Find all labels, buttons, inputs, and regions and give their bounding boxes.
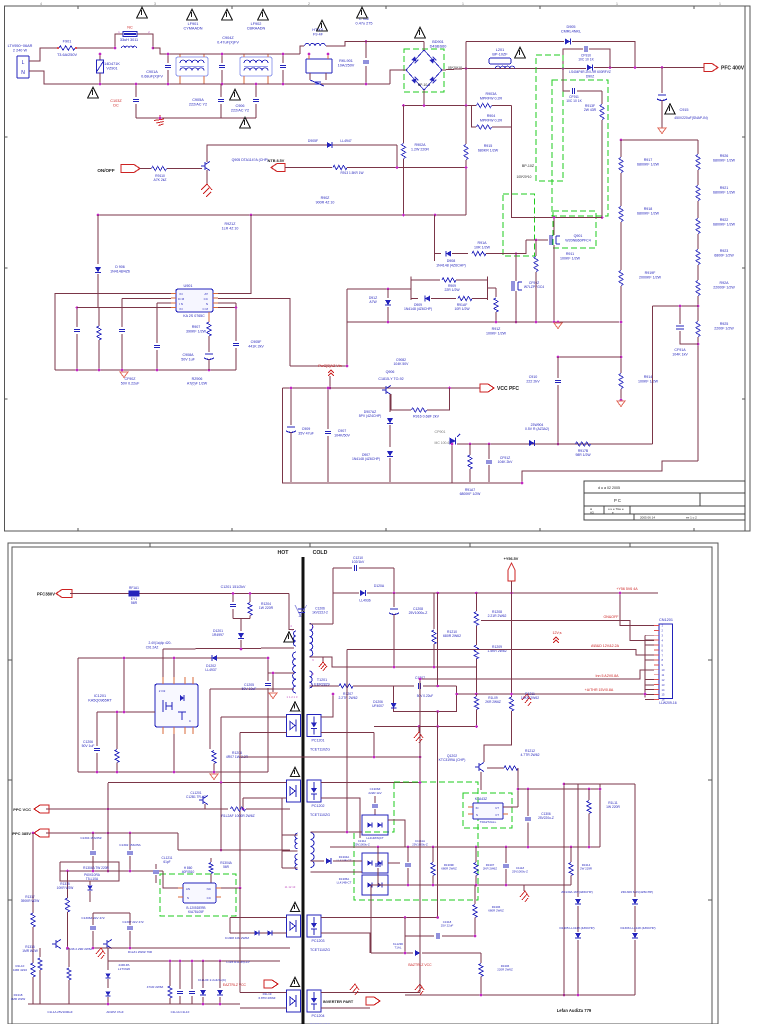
capacitor CF91Z xyxy=(488,444,490,459)
svg-text:ON/OFF: ON/OFF xyxy=(97,168,115,173)
svg-text:222/AC Y2: 222/AC Y2 xyxy=(231,109,249,113)
svg-text:CF91A: CF91A xyxy=(674,348,686,352)
resistor R917 xyxy=(619,158,623,173)
snubber C1203 xyxy=(232,594,234,603)
svg-text:2 240 W: 2 240 W xyxy=(13,49,28,53)
svg-text:PC1201: PC1201 xyxy=(312,739,325,743)
warning triangle xyxy=(415,27,426,38)
warning triangle xyxy=(240,117,251,128)
wire drain xyxy=(553,218,555,236)
svg-text:LF901: LF901 xyxy=(188,22,199,26)
svg-text:104K/50V: 104K/50V xyxy=(334,433,350,437)
svg-text:35V 47uF: 35V 47uF xyxy=(298,431,314,435)
svg-text:T5-L10A: T5-L10A xyxy=(86,877,99,881)
wire xyxy=(558,356,621,358)
svg-text:R913 1.5KR 1W: R913 1.5KR 1W xyxy=(340,171,363,175)
wire xyxy=(512,127,602,218)
choke LF902 xyxy=(240,57,272,76)
svg-text:ZD130A 16V(4Z6CHP): ZD130A 16V(4Z6CHP) xyxy=(561,890,592,894)
transformer T1202 secondary xyxy=(311,833,315,868)
svg-text:0.47uF(X)FV: 0.47uF(X)FV xyxy=(217,41,239,45)
capacitor C907B xyxy=(327,388,329,429)
svg-text:PFC380V: PFC380V xyxy=(37,592,55,597)
ic KIA431 xyxy=(473,803,503,819)
wire xyxy=(173,734,175,772)
svg-text:INVERTER PART: INVERTER PART xyxy=(323,1000,354,1004)
capacitor C901A xyxy=(167,54,169,63)
wire pack right xyxy=(388,820,405,847)
svg-text:390KF 1/2W: 390KF 1/2W xyxy=(186,329,207,333)
svg-text:Q901: Q901 xyxy=(574,234,583,238)
connector CN901 xyxy=(17,56,29,78)
wire lower xyxy=(108,960,280,962)
svg-text:W7LZPFGC4: W7LZPFGC4 xyxy=(524,285,544,289)
diode D1316 xyxy=(219,961,221,988)
resistor R905 xyxy=(98,308,100,326)
svg-text:6800KF 1/2W: 6800KF 1/2W xyxy=(713,190,736,194)
wire xyxy=(77,658,79,772)
svg-text:222 2kV: 222 2kV xyxy=(526,379,540,383)
svg-text:P C: P C xyxy=(614,498,621,503)
resistor R1212 xyxy=(487,767,504,769)
svg-text:1N4148 (4Z6CHP): 1N4148 (4Z6CHP) xyxy=(404,307,432,311)
svg-text:50V 0.22uF: 50V 0.22uF xyxy=(417,694,434,698)
wire y850 xyxy=(178,849,290,851)
svg-text:UT: UT xyxy=(495,806,499,810)
svg-text:Q905 DTA114?A (CHP): Q905 DTA114?A (CHP) xyxy=(232,158,269,162)
wire xyxy=(457,443,652,445)
diode D1305 xyxy=(575,933,581,938)
svg-text:C12B1 TR-4C: C12B1 TR-4C xyxy=(186,795,207,799)
capacitor C904B xyxy=(121,298,123,327)
wire bus 5V xyxy=(419,679,421,993)
svg-text:450V220uF(SNAP-IN): 450V220uF(SNAP-IN) xyxy=(674,116,708,120)
warning triangle xyxy=(137,7,148,18)
svg-text:T1AL: T1AL xyxy=(395,946,402,950)
svg-text:A7W: A7W xyxy=(369,300,377,304)
sheet 1 border xyxy=(5,6,751,531)
svg-text:AD1PZ 47uF: AD1PZ 47uF xyxy=(106,1010,124,1014)
wire xyxy=(153,48,176,54)
optocoupler PC1204 cold side xyxy=(307,990,321,1012)
svg-text:2000KF 1/2W: 2000KF 1/2W xyxy=(639,275,662,279)
svg-text:105*20*10: 105*20*10 xyxy=(517,175,532,179)
svg-text:R903A: R903A xyxy=(486,92,498,96)
svg-text:25V 22uF: 25V 22uF xyxy=(441,924,454,928)
wire y789 xyxy=(518,788,600,790)
svg-text:R919F: R919F xyxy=(645,271,657,275)
wire ON/OFF net xyxy=(481,621,654,641)
svg-text:D1306 LL4148 (4Z6CHP): D1306 LL4148 (4Z6CHP) xyxy=(620,926,655,930)
svg-text:390KR W2W: 390KR W2W xyxy=(21,899,39,903)
wire xyxy=(46,832,178,834)
svg-text:40F0510: 40F0510 xyxy=(182,870,195,874)
svg-text:W20NB60PFC4: W20NB60PFC4 xyxy=(565,238,591,242)
capacitor C1306 xyxy=(527,789,529,816)
svg-text:C1306Z 2kV 472: C1306Z 2kV 472 xyxy=(81,916,104,920)
resistor R923 xyxy=(696,250,700,265)
resistor R1210 xyxy=(433,593,435,629)
green box G2 xyxy=(552,80,608,216)
capacitor C903A xyxy=(76,308,78,327)
green box KIA431 xyxy=(463,793,512,828)
wire 5V net xyxy=(420,670,654,679)
svg-text:1MR 4Z16: 1MR 4Z16 xyxy=(13,968,27,972)
svg-text:25V220u-Z: 25V220u-Z xyxy=(538,816,554,820)
svg-text:1 1 2 1 3: 1 1 2 1 3 xyxy=(287,695,298,699)
svg-text:R925: R925 xyxy=(720,322,729,326)
svg-text:LL4947: LL4947 xyxy=(340,139,351,143)
svg-text:6800KF 1/2W: 6800KF 1/2W xyxy=(460,492,482,496)
svg-text:F901: F901 xyxy=(63,40,72,44)
zener ZD1304 xyxy=(577,784,579,897)
wire AC in xyxy=(390,70,406,84)
svg-text:1: 1 xyxy=(719,2,721,6)
svg-text:R915: R915 xyxy=(484,144,493,148)
svg-text:L: L xyxy=(22,60,25,66)
zener ZD1306 xyxy=(634,784,636,897)
svg-text:C901A: C901A xyxy=(146,70,158,74)
wire bottom xyxy=(55,369,236,371)
svg-text:LTV950~06AR: LTV950~06AR xyxy=(8,44,33,48)
ferrite bead FB1201 xyxy=(129,591,139,596)
wire y757 xyxy=(240,756,420,758)
wire T1202 right xyxy=(311,831,363,833)
svg-text:680R 2W62: 680R 2W62 xyxy=(443,634,461,638)
svg-text:I N: I N xyxy=(179,302,183,306)
svg-text:KTC3199A (CHP): KTC3199A (CHP) xyxy=(439,758,466,762)
wire xyxy=(29,48,57,61)
resistor R1311 xyxy=(588,789,590,800)
resistor R903A xyxy=(472,105,477,107)
svg-text:10R 1/2W: 10R 1/2W xyxy=(474,245,491,249)
wire xyxy=(162,649,164,677)
wire xyxy=(329,376,331,388)
resistor R917B xyxy=(576,442,591,446)
diode D1205 xyxy=(333,592,359,594)
svg-text:R926: R926 xyxy=(720,154,729,158)
resistor R1209 xyxy=(474,645,478,659)
capacitor row2 xyxy=(407,847,409,862)
zener D1206 xyxy=(393,686,395,701)
svg-text:L1Z6 R1L0P(L1P: L1Z6 R1L0P(L1P xyxy=(226,960,249,964)
relay contact xyxy=(309,73,311,80)
svg-text:R904: R904 xyxy=(487,114,496,118)
diode D905F xyxy=(327,142,332,148)
svg-text:2 O2: 2 O2 xyxy=(159,689,166,693)
diode D1315 xyxy=(202,961,204,988)
inductor L201 xyxy=(489,58,511,64)
wire xyxy=(239,888,241,993)
sheet 1 title block xyxy=(584,481,745,520)
wire pin1 xyxy=(55,294,171,370)
wire vcc rail xyxy=(283,387,481,389)
svg-text:ON&OFF: ON&OFF xyxy=(604,615,620,619)
port INVERTER PART xyxy=(366,997,380,1005)
svg-text:D905: D905 xyxy=(566,25,575,29)
svg-text:98R 1/2W: 98R 1/2W xyxy=(575,453,591,457)
ground chassis xyxy=(350,984,359,995)
svg-text:IC1201: IC1201 xyxy=(94,694,106,698)
svg-text:D1305 LL4148 (4Z6CHP): D1305 LL4148 (4Z6CHP) xyxy=(559,926,594,930)
svg-text:50V 10uF: 50V 10uF xyxy=(242,687,257,691)
capacitor C1306Z xyxy=(92,913,94,925)
svg-text:680KR 1/2W: 680KR 1/2W xyxy=(478,148,499,152)
svg-text:22R 1/2W: 22R 1/2W xyxy=(444,288,460,292)
svg-text:CYMAADN: CYMAADN xyxy=(184,27,203,31)
svg-text:C905F: C905F xyxy=(251,340,263,344)
diode D1307 xyxy=(254,930,259,935)
svg-text:PC1202: PC1202 xyxy=(312,804,325,808)
svg-text:25V1000u-Z: 25V1000u-Z xyxy=(512,870,528,874)
mosfet Q903 xyxy=(513,281,515,291)
svg-text:C103Z: C103Z xyxy=(110,99,122,103)
svg-text:R902A: R902A xyxy=(415,143,427,147)
svg-text:102/1kV: 102/1kV xyxy=(352,560,365,564)
resistor R1306 xyxy=(474,885,476,904)
resistor R1302F xyxy=(205,808,228,810)
svg-text:IC M: IC M xyxy=(178,297,185,301)
svg-text:VZ901: VZ901 xyxy=(106,67,117,71)
svg-text:11 12 13: 11 12 13 xyxy=(285,885,296,889)
wire ladder left xyxy=(620,140,622,157)
svg-text:RZ906: RZ906 xyxy=(192,377,203,381)
ground chassis xyxy=(522,694,531,706)
svg-text:NTB 8.5V: NTB 8.5V xyxy=(268,159,285,163)
svg-text:IN: IN xyxy=(180,292,183,296)
zener D907 xyxy=(387,451,393,456)
svg-text:IN: IN xyxy=(476,806,479,810)
svg-text:104K 1kV: 104K 1kV xyxy=(672,352,688,356)
wire T1202 left xyxy=(282,834,298,836)
wire PC1201 pins xyxy=(282,716,287,718)
svg-text:D90Z: D90Z xyxy=(586,75,594,79)
capacitor C1206 xyxy=(96,712,98,746)
transformer T1201 secondary xyxy=(310,624,313,657)
wire xyxy=(283,388,699,483)
svg-text:CT: CT xyxy=(495,813,499,817)
svg-text:2.21R 2W62: 2.21R 2W62 xyxy=(488,614,507,618)
svg-text:RF1A1: RF1A1 xyxy=(129,586,139,590)
ground chassis xyxy=(322,657,324,662)
svg-text:2.2TR 2W62: 2.2TR 2W62 xyxy=(338,696,357,700)
warning triangle xyxy=(317,20,328,31)
svg-text:104K 50V: 104K 50V xyxy=(394,362,410,366)
wire xyxy=(480,772,482,790)
optocoupler PC1203 hot side xyxy=(287,915,301,937)
svg-text:LL414B-CT: LL414B-CT xyxy=(337,881,352,885)
svg-text:0.68uF(X)FV: 0.68uF(X)FV xyxy=(141,75,163,79)
transistor Q905 xyxy=(204,162,206,170)
wire xyxy=(46,808,205,810)
resistor R1315 xyxy=(67,871,69,898)
svg-text:50V 1uF: 50V 1uF xyxy=(181,357,195,361)
svg-text:1W 220R: 1W 220R xyxy=(606,805,620,809)
ground arrow xyxy=(617,401,625,407)
svg-text:6800KF 1/2W: 6800KF 1/2W xyxy=(637,162,660,166)
wire xyxy=(437,593,439,686)
diode D1202 xyxy=(212,655,217,661)
capacitor C902A xyxy=(135,84,137,97)
transistor Q1302 xyxy=(106,940,108,948)
svg-text:100KF 1/2W: 100KF 1/2W xyxy=(486,331,507,335)
resistor R925 xyxy=(696,322,700,337)
svg-text:222R 1kV: 222R 1kV xyxy=(368,791,381,795)
capacitor CF91A xyxy=(652,305,698,307)
svg-text:K1A43Z: K1A43Z xyxy=(475,797,487,801)
diode D1309 xyxy=(311,860,325,862)
svg-text:100KF 1/2W: 100KF 1/2W xyxy=(560,256,581,260)
resistor R914 xyxy=(619,374,623,389)
svg-text:BD901: BD901 xyxy=(432,40,444,44)
diode KL1296 xyxy=(370,885,372,953)
wire y847 rail xyxy=(330,846,600,848)
svg-text:N: N xyxy=(476,813,478,817)
svg-text:BP-10ZF: BP-10ZF xyxy=(492,53,508,57)
ground arrow xyxy=(554,323,562,329)
resistor R902A xyxy=(403,106,405,144)
wire aux winding xyxy=(268,658,294,673)
wire source xyxy=(553,245,555,322)
green box L-shaped xyxy=(354,782,478,900)
wire bottom xyxy=(28,1003,240,1005)
svg-text:1MR W2W: 1MR W2W xyxy=(22,949,37,953)
svg-text:2KR 2W6Z: 2KR 2W6Z xyxy=(485,700,501,704)
gate drive row 2 xyxy=(410,277,412,301)
optocoupler PC1204 hot side xyxy=(287,990,301,1012)
wire DC out xyxy=(442,69,563,71)
resistor R913 xyxy=(285,167,332,169)
loop C1207 xyxy=(394,686,457,712)
varistor VZ901 xyxy=(99,54,101,60)
svg-text:R916 0.68F 2kV: R916 0.68F 2kV xyxy=(413,415,440,419)
optocoupler PC1202 cold side xyxy=(307,780,321,802)
svg-text:IN: IN xyxy=(180,307,183,311)
Y-capacitor C906 xyxy=(255,84,257,97)
transistor Q1202 xyxy=(478,763,480,771)
capacitor C907 xyxy=(282,54,284,63)
svg-text:R91A: R91A xyxy=(478,241,488,245)
svg-text:MC 100-6: MC 100-6 xyxy=(435,441,450,445)
warning triangle xyxy=(187,9,198,20)
resistor R1307 xyxy=(475,847,477,862)
svg-text:A7(0)F 1/2W: A7(0)F 1/2W xyxy=(187,381,208,385)
svg-text:R914: R914 xyxy=(644,375,653,379)
svg-text:C904Z: C904Z xyxy=(222,36,234,40)
svg-text:PC1204: PC1204 xyxy=(312,1014,325,1018)
svg-text:PPC VCC: PPC VCC xyxy=(13,807,31,812)
resistor ladder R1317 xyxy=(32,833,34,913)
svg-text:Lefan AudiZa 779: Lefan AudiZa 779 xyxy=(557,1008,592,1013)
svg-text:R9Z1Z: R9Z1Z xyxy=(225,222,237,226)
loop R1304A xyxy=(60,862,119,881)
svg-text:C1307 2kV 472: C1307 2kV 472 xyxy=(122,920,144,924)
green box G1 xyxy=(536,55,563,181)
wire transformer top xyxy=(289,594,294,630)
svg-text:C91 2AZ: C91 2AZ xyxy=(146,646,159,650)
wire xyxy=(465,42,467,106)
svg-text:+Y56 5V6 4A: +Y56 5V6 4A xyxy=(616,587,638,591)
svg-text:100KF 1/2W: 100KF 1/2W xyxy=(638,379,659,383)
svg-text:HOT: HOT xyxy=(278,550,290,556)
svg-text:C M: C M xyxy=(203,307,209,311)
wire 15V net xyxy=(457,685,654,694)
svg-text:C1815-Y TO-92: C1815-Y TO-92 xyxy=(378,377,403,381)
wire opto4 left xyxy=(240,992,282,994)
wire PC1202 pins xyxy=(282,782,287,784)
svg-text:LL4936: LL4936 xyxy=(359,599,370,603)
wire xyxy=(290,289,347,366)
wire xyxy=(77,307,98,309)
svg-text:441K 2kV: 441K 2kV xyxy=(248,344,264,348)
wire gnd bus xyxy=(644,694,646,697)
svg-text:900R 4Z 10: 900R 4Z 10 xyxy=(316,200,335,204)
wire opto4 right xyxy=(326,992,420,994)
wire xyxy=(240,53,300,55)
svg-text:MPRFW 0.2R: MPRFW 0.2R xyxy=(480,96,503,100)
ground PE xyxy=(201,184,212,197)
wire opto2 left xyxy=(108,782,282,784)
wire pin2 xyxy=(122,297,171,299)
Y-capacitor C905A xyxy=(220,84,222,97)
svg-text:TCET110ZG: TCET110ZG xyxy=(310,948,330,952)
svg-text:TCET110ZG: TCET110ZG xyxy=(310,748,330,752)
svg-text:6800F 1/2W: 6800F 1/2W xyxy=(714,253,734,257)
port PPC VCC xyxy=(34,805,49,813)
svg-text:UF4007: UF4007 xyxy=(372,704,384,708)
port PFC 400V xyxy=(704,64,718,72)
wire 12V bus down xyxy=(346,650,348,833)
wire pin7 xyxy=(218,298,290,366)
svg-text:C1L1A 25V1000uF: C1L1A 25V1000uF xyxy=(47,1010,73,1014)
svg-text:680R 2W6Z: 680R 2W6Z xyxy=(441,867,457,871)
resistor R1309F xyxy=(432,847,434,862)
svg-text:1kV222J-2: 1kV222J-2 xyxy=(312,611,328,615)
wire PC1204 pins xyxy=(282,992,287,994)
warning triangle xyxy=(665,104,675,114)
svg-text:KA5Q0965RT: KA5Q0965RT xyxy=(88,699,112,703)
svg-text:104K 2kV: 104K 2kV xyxy=(498,460,513,464)
svg-text:N: N xyxy=(21,70,25,76)
transformer T1202 primary xyxy=(295,833,298,849)
svg-text:R91Z: R91Z xyxy=(492,327,502,331)
ic U901 xyxy=(176,289,213,312)
resistor R915 xyxy=(465,106,467,145)
wire pin3 xyxy=(157,302,171,304)
capacitor C904Z xyxy=(221,54,223,63)
svg-text:NC: NC xyxy=(127,26,133,30)
svg-text:10KR W2W: 10KR W2W xyxy=(57,886,74,890)
svg-text:R907: R907 xyxy=(192,325,201,329)
wire bottom rail xyxy=(78,771,268,773)
wire primary return xyxy=(163,648,294,649)
resistor R921 xyxy=(696,186,700,201)
svg-text:C907: C907 xyxy=(338,429,347,433)
svg-text:1MR W2W: 1MR W2W xyxy=(11,997,26,1001)
wire xyxy=(70,593,289,595)
wire pin4 xyxy=(98,307,171,309)
svg-text:2: 2 xyxy=(308,2,310,6)
transistor Q906 xyxy=(385,386,387,394)
diode D1308 xyxy=(267,930,272,935)
resistor R1L09 xyxy=(476,694,478,696)
wire xyxy=(233,618,250,620)
svg-text:D4SBS60: D4SBS60 xyxy=(430,45,447,49)
svg-text:KA 2S 0765C: KA 2S 0765C xyxy=(183,314,205,318)
capacitor C1302B xyxy=(129,833,131,850)
choke LF901 xyxy=(176,57,208,76)
capacitor C111Z xyxy=(505,847,507,863)
